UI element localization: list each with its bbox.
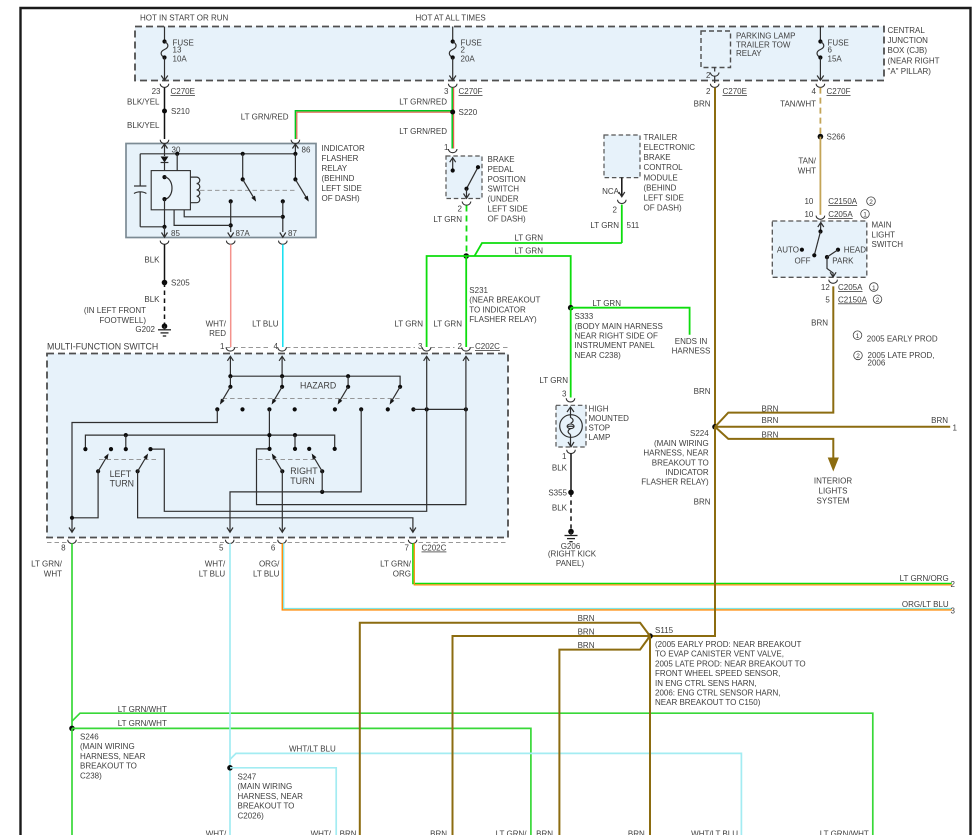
wire LT GRN/WHT S246 down: [71, 728, 73, 835]
svg-text:NEAR C238): NEAR C238): [575, 351, 622, 360]
svg-text:(2005 EARLY PROD: NEAR BREAKOU: (2005 EARLY PROD: NEAR BREAKOUT: [655, 640, 802, 649]
left turn switch: [83, 447, 157, 489]
svg-text:TRAILER TOW: TRAILER TOW: [736, 40, 791, 49]
svg-text:S205: S205: [171, 279, 190, 288]
wire LT GRN 511 TEBCM to S231 line: [590, 205, 639, 244]
svg-text:NCA: NCA: [602, 187, 620, 196]
svg-text:(NEAR RIGHT: (NEAR RIGHT: [888, 57, 940, 66]
wire BLK relay 85 to S205: [144, 244, 164, 282]
bottom cut labels: [206, 829, 869, 835]
svg-text:TAN/WHT: TAN/WHT: [780, 99, 816, 108]
splice S231: [463, 253, 540, 324]
connector C270E pin 23: [152, 84, 195, 96]
svg-text:(BODY MAIN HARNESS: (BODY MAIN HARNESS: [575, 322, 663, 331]
relay switch 1: [241, 154, 258, 203]
svg-text:HOT AT ALL TIMES: HOT AT ALL TIMES: [416, 14, 486, 23]
svg-text:ENDS IN: ENDS IN: [675, 337, 708, 346]
brake pedal position switch: [444, 143, 528, 223]
svg-text:6: 6: [271, 544, 276, 553]
multi-function switch box: [47, 342, 508, 543]
svg-text:BLK: BLK: [144, 256, 160, 265]
svg-text:(RIGHT KICK: (RIGHT KICK: [548, 550, 597, 559]
relay pin 87A: [226, 229, 250, 244]
wire WHT/LT BLU S247 branch down: [230, 768, 336, 835]
svg-text:C238): C238): [80, 771, 102, 780]
relay switch 2: [293, 154, 310, 203]
svg-text:SWITCH: SWITCH: [488, 185, 520, 194]
svg-text:RED: RED: [209, 329, 226, 338]
connector C270F pin 3: [444, 84, 483, 96]
svg-text:BREAKOUT TO: BREAKOUT TO: [80, 762, 137, 771]
svg-text:LIGHT: LIGHT: [872, 231, 896, 240]
svg-text:(MAIN WIRING: (MAIN WIRING: [654, 439, 709, 448]
indicator flasher relay U1: [126, 144, 365, 238]
hazard switch blade 2: [270, 385, 284, 406]
svg-text:2006: 2006: [868, 358, 886, 367]
svg-text:TO EVAP CANISTER VENT VALVE,: TO EVAP CANISTER VENT VALVE,: [655, 650, 784, 659]
MFS pin 4: [274, 342, 287, 376]
svg-text:IN ENG CTRL SENS HARN,: IN ENG CTRL SENS HARN,: [655, 679, 757, 688]
svg-text:BRN: BRN: [430, 829, 447, 835]
svg-text:AUTO: AUTO: [777, 246, 799, 255]
MFS pin 3: [418, 342, 431, 361]
svg-text:WHT/: WHT/: [311, 829, 332, 835]
wire BRN S115 branch 3: [559, 636, 650, 835]
svg-text:TURN: TURN: [290, 476, 314, 486]
relay contact to 87: [184, 199, 285, 232]
svg-text:MODULE: MODULE: [644, 173, 678, 182]
svg-text:RELAY: RELAY: [736, 49, 762, 58]
svg-text:BRN: BRN: [762, 404, 779, 413]
svg-text:MULTI-FUNCTION SWITCH: MULTI-FUNCTION SWITCH: [47, 342, 158, 352]
svg-text:BRN: BRN: [694, 99, 711, 108]
svg-text:S220: S220: [459, 108, 478, 117]
svg-text:TRAILER: TRAILER: [644, 133, 678, 142]
wire BRN S115 branch 2: [453, 627, 651, 835]
hazard contact dots: [215, 407, 415, 411]
svg-text:6: 6: [828, 46, 833, 55]
svg-text:C270F: C270F: [459, 87, 483, 96]
svg-text:(NEAR BREAKOUT: (NEAR BREAKOUT: [469, 296, 540, 305]
svg-text:2: 2: [613, 206, 618, 215]
relay pin 85: [160, 225, 180, 245]
MFS pin 7 and C202C: [405, 528, 447, 553]
splice S205: [162, 279, 191, 288]
MFS pin 5: [219, 528, 234, 553]
svg-text:BOX (CJB): BOX (CJB): [888, 46, 928, 55]
svg-text:HARNESS, NEAR: HARNESS, NEAR: [643, 449, 709, 458]
svg-text:ORG/: ORG/: [259, 560, 280, 569]
MFS pin 8: [61, 516, 76, 553]
svg-text:C2150A: C2150A: [838, 295, 868, 304]
wire hazard contact2 bus: [85, 409, 334, 449]
wire BRN S115 branch 1: [360, 614, 650, 835]
svg-text:2005 EARLY PROD: 2005 EARLY PROD: [867, 334, 938, 343]
ground G206: [548, 529, 597, 568]
svg-text:2: 2: [458, 342, 463, 351]
svg-text:HARNESS: HARNESS: [672, 347, 711, 356]
fuse F13 10A: [161, 27, 194, 81]
svg-text:10A: 10A: [173, 55, 188, 64]
svg-text:RIGHT: RIGHT: [290, 466, 318, 476]
svg-text:(UNDER: (UNDER: [488, 195, 519, 204]
svg-text:(BEHIND: (BEHIND: [644, 183, 677, 192]
svg-text:WHT/: WHT/: [206, 319, 227, 328]
svg-text:SYSTEM: SYSTEM: [817, 497, 850, 506]
svg-text:10: 10: [804, 197, 813, 206]
svg-text:2: 2: [876, 297, 880, 304]
svg-text:NEAR RIGHT SIDE OF: NEAR RIGHT SIDE OF: [575, 332, 659, 341]
svg-text:OF DASH): OF DASH): [644, 203, 683, 212]
svg-text:ORG: ORG: [393, 570, 411, 579]
svg-text:BRN: BRN: [628, 829, 645, 835]
wire LT GRN/WHT MFS pin8 to S246: [31, 543, 72, 728]
svg-text:S115: S115: [655, 626, 674, 635]
legend note 2: [854, 351, 935, 368]
svg-text:4: 4: [812, 87, 817, 96]
splice S333: [568, 305, 663, 360]
svg-text:BRN: BRN: [578, 641, 595, 650]
svg-text:LT GRN/: LT GRN/: [380, 560, 412, 569]
svg-text:2005 LATE PROD: NEAR BREAKOUT: 2005 LATE PROD: NEAR BREAKOUT TO: [655, 659, 806, 668]
svg-text:(BEHIND: (BEHIND: [322, 174, 355, 183]
wire LT GRN/ORG MFS pin7 to right edge: [380, 543, 955, 589]
svg-text:LT BLU: LT BLU: [199, 570, 226, 579]
svg-text:5: 5: [219, 544, 224, 553]
svg-text:S333: S333: [575, 312, 594, 321]
svg-text:(MAIN WIRING: (MAIN WIRING: [80, 742, 135, 751]
svg-text:S231: S231: [469, 286, 488, 295]
svg-text:ORG/LT BLU: ORG/LT BLU: [902, 600, 949, 609]
wire BRN CJB to S224: [694, 88, 715, 427]
svg-text:5: 5: [825, 295, 830, 304]
svg-text:86: 86: [302, 146, 311, 155]
left turn blade 1: [72, 452, 110, 517]
svg-text:4: 4: [274, 342, 279, 351]
svg-text:BRN: BRN: [578, 614, 595, 623]
wire hazard contact1 to pin8 leg: [72, 409, 217, 531]
svg-text:2: 2: [706, 71, 711, 80]
wire LT GRN/RED relay 86 to S220: [241, 111, 453, 139]
svg-text:15A: 15A: [828, 55, 843, 64]
svg-text:INDICATOR: INDICATOR: [665, 468, 708, 477]
svg-text:LT GRN: LT GRN: [514, 247, 543, 256]
relay pin 87: [279, 229, 298, 244]
svg-text:S355: S355: [548, 488, 567, 497]
svg-text:LT GRN: LT GRN: [539, 376, 568, 385]
svg-text:S224: S224: [690, 429, 709, 438]
svg-text:BRAKE: BRAKE: [644, 153, 671, 162]
svg-text:2: 2: [856, 353, 860, 360]
hazard switch blade 1: [218, 385, 232, 406]
svg-text:LT GRN: LT GRN: [433, 215, 462, 224]
connector C270E pin 2: [706, 84, 747, 96]
splice S246: [69, 726, 145, 781]
wire BRN S115 down: [649, 636, 651, 835]
right turn switch: [258, 447, 337, 486]
svg-text:3: 3: [418, 342, 423, 351]
wire BLK stop lamp to S355: [552, 454, 571, 493]
wire hazard contact3 to pin5 bus: [230, 409, 361, 531]
svg-text:C270E: C270E: [171, 87, 195, 96]
svg-text:LIGHTS: LIGHTS: [819, 487, 848, 496]
MFS pin 2 and C202C: [458, 342, 501, 361]
svg-text:BRN: BRN: [811, 319, 828, 328]
svg-text:FLASHER: FLASHER: [322, 154, 359, 163]
svg-text:2: 2: [458, 205, 463, 214]
ground G202: [135, 323, 171, 336]
svg-text:PARKING LAMP: PARKING LAMP: [736, 32, 795, 41]
svg-text:BRN: BRN: [762, 416, 779, 425]
svg-text:LT GRN/: LT GRN/: [31, 560, 63, 569]
legend note 1: [853, 331, 938, 343]
svg-text:BRN: BRN: [340, 829, 357, 835]
svg-text:BRN: BRN: [694, 498, 711, 507]
svg-text:INSTRUMENT PANEL: INSTRUMENT PANEL: [575, 341, 656, 350]
wire BRN S224 to interior lights system: [715, 427, 852, 506]
splice S224: [641, 424, 718, 487]
svg-text:INDICATOR: INDICATOR: [322, 144, 365, 153]
svg-text:LT GRN/: LT GRN/: [496, 829, 528, 835]
connector C270F pin 4: [812, 84, 851, 96]
svg-text:BREAKOUT TO: BREAKOUT TO: [238, 802, 295, 811]
svg-text:LT GRN: LT GRN: [514, 234, 543, 243]
svg-text:S266: S266: [827, 133, 846, 142]
svg-text:RELAY: RELAY: [322, 164, 348, 173]
trailer electronic brake control module: [604, 133, 695, 212]
svg-text:511: 511: [627, 221, 640, 230]
svg-text:WHT: WHT: [798, 166, 816, 175]
central junction box CJB: [135, 27, 884, 81]
hazard switch blade 4: [388, 385, 402, 406]
svg-text:CENTRAL: CENTRAL: [888, 26, 926, 35]
svg-text:HEAD: HEAD: [844, 246, 866, 255]
svg-text:LT GRN/WHT: LT GRN/WHT: [118, 705, 167, 714]
fuse F6 15A: [817, 27, 849, 81]
svg-text:12: 12: [821, 283, 830, 292]
svg-text:C2150A: C2150A: [828, 197, 858, 206]
svg-text:87A: 87A: [236, 229, 251, 238]
svg-text:LEFT SIDE: LEFT SIDE: [488, 205, 528, 214]
wire BRN S224 to right edge 1: [715, 416, 958, 432]
svg-text:TO INDICATOR: TO INDICATOR: [469, 305, 526, 314]
svg-text:LT GRN: LT GRN: [394, 319, 423, 328]
svg-text:LEFT: LEFT: [110, 469, 132, 479]
svg-text:20A: 20A: [461, 55, 476, 64]
MFS pin 1: [220, 342, 235, 376]
svg-text:STOP: STOP: [589, 423, 611, 432]
svg-text:INTERIOR: INTERIOR: [814, 477, 852, 486]
wire LT GRN/WHT S246 lower branch: [72, 719, 531, 835]
wire LT GRN S333 ends in harness: [571, 299, 711, 356]
relay contact to 87A: [174, 199, 233, 232]
svg-text:BLK/YEL: BLK/YEL: [127, 98, 160, 107]
hazard switch blade 3: [336, 385, 350, 406]
MFS pin 6: [271, 528, 286, 553]
svg-text:HARNESS, NEAR: HARNESS, NEAR: [238, 792, 304, 801]
relay diode: [161, 157, 169, 171]
svg-text:LEFT SIDE: LEFT SIDE: [322, 184, 362, 193]
svg-text:BLK/YEL: BLK/YEL: [127, 121, 160, 130]
svg-text:TAN/: TAN/: [798, 157, 816, 166]
svg-text:BRN: BRN: [578, 627, 595, 636]
wire BLK S205 to G202: [84, 283, 165, 326]
relay internal top bus: [140, 152, 297, 171]
svg-text:MAIN: MAIN: [872, 221, 892, 230]
relay coil windings: [190, 177, 295, 203]
svg-text:LT GRN/RED: LT GRN/RED: [241, 113, 289, 122]
svg-text:1: 1: [562, 452, 567, 461]
wire LT GRN S231 to TEBCM pin2 line: [475, 234, 622, 257]
wire TAN/WHT fuse6 to S266: [780, 88, 820, 137]
svg-text:LT GRN: LT GRN: [433, 319, 462, 328]
svg-text:POSITION: POSITION: [488, 175, 526, 184]
svg-text:3: 3: [951, 607, 956, 616]
splice S266: [818, 133, 846, 142]
wire BLK S355 to G206: [552, 492, 571, 528]
svg-text:LEFT SIDE: LEFT SIDE: [644, 193, 684, 202]
svg-text:HARNESS, NEAR: HARNESS, NEAR: [80, 752, 146, 761]
svg-text:WHT/: WHT/: [206, 829, 227, 835]
svg-text:2: 2: [869, 199, 873, 206]
svg-text:WHT/LT BLU: WHT/LT BLU: [691, 829, 738, 835]
splice S115: [647, 626, 805, 707]
svg-text:1: 1: [856, 333, 860, 340]
svg-text:10: 10: [804, 210, 813, 219]
svg-text:3: 3: [444, 87, 449, 96]
svg-text:2: 2: [951, 580, 956, 589]
svg-text:3: 3: [562, 390, 567, 399]
svg-text:BLK: BLK: [552, 504, 568, 513]
svg-text:2006: ENG CTRL SENSOR HARN,: 2006: ENG CTRL SENSOR HARN,: [655, 689, 781, 698]
svg-text:BREAKOUT TO: BREAKOUT TO: [652, 458, 709, 467]
wire WHT/LT BLU MFS pin5 down: [199, 543, 230, 835]
main light switch: [772, 221, 903, 278]
wire LT BLU relay 87 to MFS pin4: [252, 244, 283, 347]
main light switch connector bottom: [821, 280, 882, 305]
wire LT GRN/WHT S246 upper branch: [72, 705, 873, 835]
svg-text:LT GRN: LT GRN: [592, 299, 621, 308]
splice S220: [450, 108, 478, 117]
svg-text:LT GRN/WHT: LT GRN/WHT: [820, 829, 869, 835]
svg-text:S210: S210: [171, 107, 190, 116]
svg-text:HOT IN START OR RUN: HOT IN START OR RUN: [140, 14, 229, 23]
wire LT GRN dashed BPP to S231: [433, 206, 466, 257]
svg-text:BRN: BRN: [931, 416, 948, 425]
svg-text:PARK: PARK: [832, 257, 854, 266]
svg-text:PANEL): PANEL): [556, 559, 585, 568]
svg-text:8: 8: [61, 544, 66, 553]
svg-text:ELECTRONIC: ELECTRONIC: [644, 143, 696, 152]
MFS pin2 internal wire: [257, 356, 466, 504]
svg-text:BRN: BRN: [762, 431, 779, 440]
svg-text:1: 1: [872, 285, 876, 292]
wire LT GRN S231 to S333: [466, 247, 571, 308]
svg-text:OF DASH): OF DASH): [322, 194, 361, 203]
wire ORG/LT BLU MFS pin6 to right edge: [253, 543, 955, 615]
svg-text:BLK: BLK: [552, 463, 568, 472]
svg-text:OFF: OFF: [795, 257, 811, 266]
left turn blade 2: [136, 452, 413, 531]
relay coil box: [151, 171, 190, 227]
svg-text:LAMP: LAMP: [589, 433, 611, 442]
svg-text:85: 85: [171, 229, 180, 238]
svg-text:TURN: TURN: [110, 479, 134, 489]
right turn blade 1: [270, 452, 284, 531]
wire BRN S224 down to S115: [650, 427, 715, 636]
splice S247: [227, 765, 303, 820]
wire BLK/YEL fuse13 to relay pin30: [127, 88, 164, 139]
svg-text:(MAIN WIRING: (MAIN WIRING: [238, 782, 293, 791]
svg-text:C2026): C2026): [238, 811, 265, 820]
svg-text:FRONT WHEEL SPEED SENSOR,: FRONT WHEEL SPEED SENSOR,: [655, 669, 780, 678]
svg-text:87: 87: [288, 229, 297, 238]
svg-text:OF DASH): OF DASH): [488, 214, 527, 223]
svg-text:2: 2: [706, 87, 711, 96]
wire WHT/RED relay 87A to MFS pin1: [206, 244, 231, 347]
relay pin 30: [160, 140, 181, 156]
parking lamp trailer tow relay: [701, 31, 795, 83]
svg-text:2: 2: [461, 46, 466, 55]
svg-text:WHT/: WHT/: [205, 560, 226, 569]
wire hazard contact to pins 3 and 2: [413, 407, 468, 411]
wire NCA TEBCM pin2: [602, 178, 626, 215]
svg-text:CONTROL: CONTROL: [644, 163, 684, 172]
wire BRN S224 to main light switch: [715, 286, 833, 426]
svg-text:PEDAL: PEDAL: [488, 165, 515, 174]
splice S355: [548, 488, 573, 497]
svg-text:JUNCTION: JUNCTION: [888, 36, 929, 45]
svg-text:BRAKE: BRAKE: [488, 155, 515, 164]
svg-text:WHT/LT BLU: WHT/LT BLU: [289, 744, 336, 753]
svg-text:C270F: C270F: [827, 87, 851, 96]
svg-text:C270E: C270E: [723, 87, 747, 96]
wire LT GRN S231 to MFS pin2: [433, 256, 466, 347]
svg-text:LT GRN/RED: LT GRN/RED: [399, 98, 447, 107]
wire LT GRN/RED fuse2 to BPP: [399, 88, 453, 149]
svg-text:FLASHER RELAY): FLASHER RELAY): [469, 315, 537, 324]
svg-text:BRN: BRN: [694, 387, 711, 396]
svg-text:S246: S246: [80, 733, 99, 742]
svg-text:7: 7: [405, 544, 410, 553]
svg-text:LT GRN/WHT: LT GRN/WHT: [118, 719, 167, 728]
svg-text:BLK: BLK: [144, 295, 160, 304]
svg-text:C202C: C202C: [422, 544, 447, 553]
relay capacitor: [134, 154, 165, 227]
svg-text:NEAR BREAKOUT TO C150): NEAR BREAKOUT TO C150): [655, 698, 761, 707]
fuse F2 20A: [449, 27, 482, 81]
svg-text:SWITCH: SWITCH: [872, 240, 904, 249]
svg-text:LT BLU: LT BLU: [253, 570, 280, 579]
svg-text:13: 13: [173, 46, 182, 55]
svg-text:1: 1: [220, 342, 225, 351]
splice S210: [162, 107, 190, 116]
right turn blade 2: [310, 452, 324, 491]
main light switch connector top: [804, 197, 875, 219]
wire LT GRN S333 to stop lamp: [539, 308, 570, 399]
wire LT GRN S231 to MFS pin3: [394, 256, 466, 347]
svg-text:WHT: WHT: [44, 570, 62, 579]
relay pin 86: [291, 140, 311, 155]
svg-text:LT BLU: LT BLU: [252, 319, 279, 328]
svg-text:G202: G202: [135, 325, 155, 334]
svg-text:MOUNTED: MOUNTED: [589, 414, 630, 423]
svg-text:LT GRN: LT GRN: [590, 221, 619, 230]
svg-text:C205A: C205A: [838, 283, 863, 292]
svg-text:LT GRN/RED: LT GRN/RED: [399, 127, 447, 136]
svg-text:FLASHER RELAY): FLASHER RELAY): [641, 478, 709, 487]
svg-text:1: 1: [953, 424, 958, 433]
